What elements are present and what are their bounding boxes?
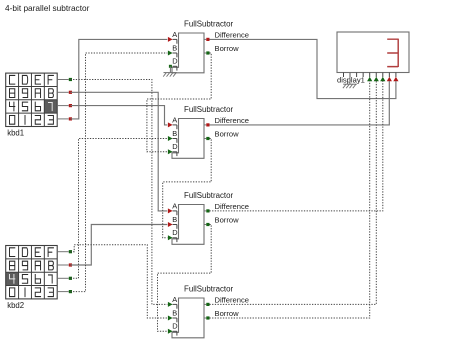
kbd1 output pin bit1 — [57, 105, 68, 107]
pin Difference of U4 — [204, 303, 206, 305]
digit 3 on display — [387, 39, 398, 67]
wire kbd2 bit2 to U3 B — [70, 225, 167, 266]
svg-text:B: B — [172, 308, 177, 317]
svg-text:Borrow: Borrow — [215, 130, 240, 139]
7-segment display display1 — [337, 32, 409, 73]
svg-text:A: A — [172, 295, 177, 304]
pin D of U1 — [173, 65, 177, 67]
display1 pin 7 — [388, 73, 390, 78]
pin A of U4 — [173, 303, 177, 305]
pin D of U4 — [173, 330, 177, 332]
wire U2 Difference to display bit1 — [209, 81, 389, 125]
kbd2 output pin bit3 — [57, 251, 68, 253]
svg-text:Difference: Difference — [215, 31, 249, 40]
op-amp U4 FullSubtractor block 4 — [172, 298, 204, 338]
wire kbd1 bit3 to U4 A — [70, 80, 167, 305]
svg-text:kbd1: kbd1 — [7, 129, 24, 138]
svg-text:Borrow: Borrow — [215, 309, 240, 318]
pin Borrow of U3 — [204, 224, 206, 226]
wire U3 Difference to display bit2 — [209, 81, 382, 211]
svg-text:A: A — [172, 30, 177, 39]
display1 pin 1 — [349, 73, 351, 78]
svg-text:B: B — [172, 215, 177, 224]
pin Difference of U1 — [204, 38, 206, 40]
svg-text:D: D — [172, 142, 177, 151]
wire kbd1 bit1 to U2 A — [70, 106, 167, 125]
op-amp U3 FullSubtractor block 3 — [172, 205, 204, 245]
display1 pin 3 — [362, 73, 364, 78]
wire kbd1 bit0 to U1 A — [70, 39, 167, 119]
svg-text:D: D — [172, 57, 177, 66]
pin Borrow of U1 — [204, 52, 206, 54]
wire U2 Borrow to U3 D — [163, 139, 212, 238]
svg-text:Difference: Difference — [215, 116, 249, 125]
pin B of U4 — [173, 317, 177, 319]
wire U1 Difference to display bit0 — [209, 39, 396, 98]
pin A of U2 — [173, 124, 177, 126]
display1 pin 8 — [395, 73, 397, 78]
display1 pin 2 — [356, 73, 358, 78]
ground symbol under display1 — [349, 73, 351, 85]
wire kbd2 bit1 to U2 B — [70, 139, 167, 279]
pin B of U3 — [173, 224, 177, 226]
display1 pin 0 — [343, 73, 345, 78]
svg-text:FullSubtractor: FullSubtractor — [184, 105, 233, 114]
kbd1 output pin bit0 — [57, 118, 68, 120]
display1 pin 5 — [375, 73, 377, 78]
pin Difference of U2 — [204, 124, 206, 126]
display1 pin 6 — [382, 73, 384, 78]
svg-text:Difference: Difference — [215, 202, 249, 211]
ground symbol at U1 D input — [169, 65, 172, 68]
svg-text:FullSubtractor: FullSubtractor — [184, 191, 233, 200]
svg-text:B: B — [172, 43, 177, 52]
svg-text:FullSubtractor: FullSubtractor — [184, 20, 233, 29]
svg-text:A: A — [172, 201, 177, 210]
kbd1 output pin bit2 — [57, 91, 68, 93]
pin A of U1 — [173, 38, 177, 40]
svg-text:4-bit parallel subtractor: 4-bit parallel subtractor — [5, 3, 90, 13]
kbd1 output pin bit3 — [57, 79, 68, 81]
pin Borrow of U4 — [204, 317, 206, 319]
wire kbd2 bit0 to U1 B — [70, 53, 167, 292]
svg-text:Borrow: Borrow — [215, 216, 240, 225]
pin D of U3 — [173, 237, 177, 239]
pin Borrow of U2 — [204, 138, 206, 140]
pin B of U1 — [173, 52, 177, 54]
svg-text:display1: display1 — [337, 76, 365, 85]
svg-text:D: D — [172, 322, 177, 331]
op-amp U2 FullSubtractor block 2 — [172, 119, 204, 159]
pin A of U3 — [173, 210, 177, 212]
display1 pin 4 — [369, 73, 371, 78]
wire kbd2 bit3 to U4 B — [70, 245, 167, 318]
kbd2 output pin bit1 — [57, 277, 68, 279]
svg-text:Difference: Difference — [215, 296, 249, 305]
wire U4 Difference to display bit3 — [209, 81, 376, 304]
kbd2 output pin bit2 — [57, 264, 68, 266]
pin B of U2 — [173, 138, 177, 140]
wire U4 Borrow to display pin4 — [209, 81, 369, 318]
pin D of U2 — [173, 151, 177, 153]
wire U3 Borrow to U4 D — [158, 225, 212, 332]
pin Difference of U3 — [204, 210, 206, 212]
kbd2 output pin bit0 — [57, 291, 68, 293]
svg-text:Borrow: Borrow — [215, 44, 240, 53]
op-amp U1 FullSubtractor block 1 — [172, 33, 204, 73]
svg-text:B: B — [172, 129, 177, 138]
svg-text:A: A — [172, 115, 177, 124]
svg-text:FullSubtractor: FullSubtractor — [184, 285, 233, 294]
svg-text:kbd2: kbd2 — [7, 301, 24, 310]
keypad kbd2 — [6, 272, 19, 285]
svg-text:D: D — [172, 228, 177, 237]
wire kbd1 bit2 to U3 A — [70, 92, 167, 211]
keypad kbd1 — [44, 100, 57, 113]
wire U1 Borrow to U2 D — [147, 53, 211, 152]
